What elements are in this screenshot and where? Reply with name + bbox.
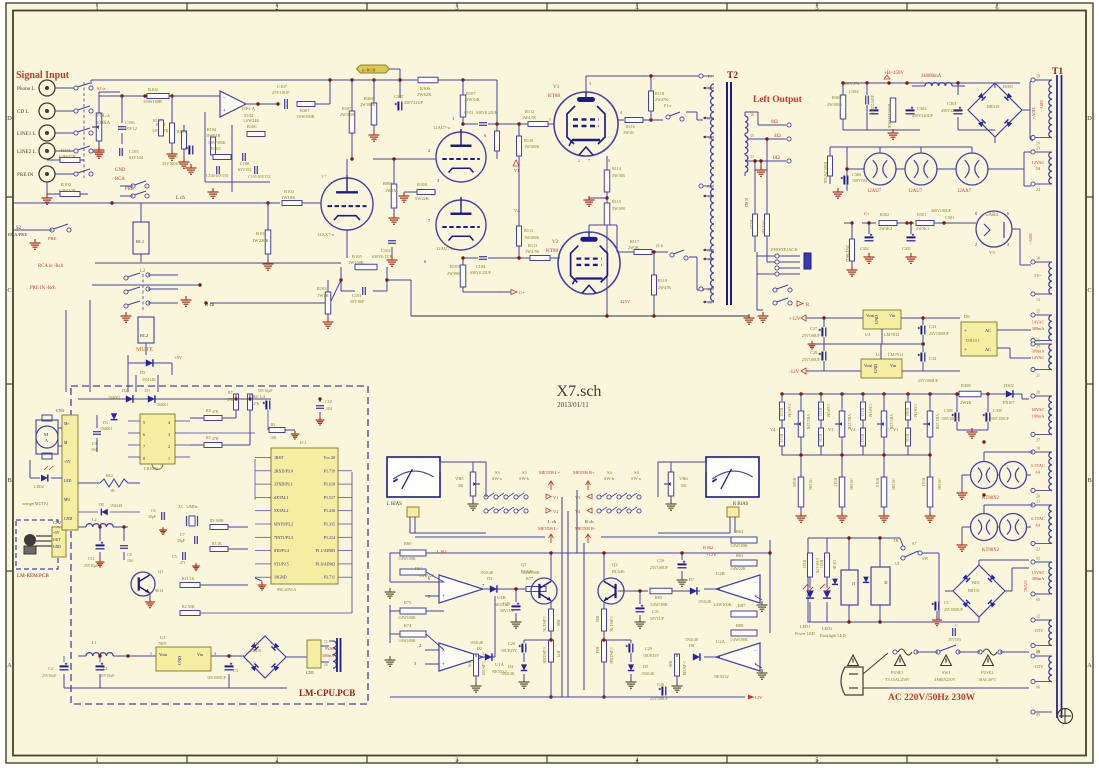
svg-text:Vin: Vin (197, 652, 204, 657)
svg-text:1N4001: 1N4001 (100, 427, 112, 431)
svg-text:9T1/P3.5: 9T1/P3.5 (274, 561, 289, 566)
svg-text:R308: R308 (961, 383, 971, 388)
svg-text:1/4W100K: 1/4W100K (398, 556, 416, 561)
svg-text:D7: D7 (689, 577, 694, 582)
svg-text:19: 19 (1036, 446, 1040, 451)
svg-text:AC: AC (985, 347, 991, 352)
svg-text:A: A (7, 662, 12, 669)
svg-text:1/4W10K: 1/4W10K (58, 188, 77, 193)
svg-text:C308: C308 (993, 408, 1002, 413)
svg-text:03: 03 (1036, 597, 1040, 602)
svg-text:1/4W100K: 1/4W100K (398, 615, 416, 620)
svg-text:630V0.1UF: 630V0.1UF (372, 254, 393, 259)
svg-text:1/6W100R: 1/6W100R (143, 99, 162, 104)
svg-text:C29: C29 (645, 646, 652, 651)
svg-text:25V10μF: 25V10μF (84, 564, 98, 568)
svg-text:100V100UF: 100V100UF (941, 417, 960, 421)
svg-text:1N4148: 1N4148 (685, 637, 698, 642)
svg-text:R101: R101 (256, 231, 267, 236)
svg-text:C+: C+ (864, 211, 870, 216)
svg-text:27: 27 (1036, 437, 1040, 442)
svg-text:C: C (7, 287, 11, 294)
svg-text:CN3: CN3 (56, 408, 64, 413)
svg-text:R112: R112 (525, 109, 534, 114)
svg-text:16: 16 (750, 112, 754, 117)
svg-text:R5: R5 (206, 435, 211, 440)
svg-text:1W10K: 1W10K (808, 478, 812, 490)
svg-text:V1: V1 (553, 495, 558, 500)
svg-text:orange(MUTE): orange(MUTE) (22, 501, 49, 506)
svg-text:18: 18 (1036, 74, 1040, 79)
svg-text:R80: R80 (556, 620, 560, 626)
svg-text:P1.214: P1.214 (324, 535, 335, 540)
svg-text:R86: R86 (668, 661, 672, 667)
svg-text:16V1000UF: 16V1000UF (207, 676, 226, 680)
svg-text:1/6W1M: 1/6W1M (913, 404, 917, 418)
svg-text:10UF25V: 10UF25V (501, 648, 517, 653)
svg-text:Vout: Vout (864, 363, 873, 368)
svg-text:4A: 4A (1035, 469, 1040, 474)
svg-text:12AU7: 12AU7 (867, 189, 882, 194)
svg-text:15: 15 (324, 640, 328, 644)
svg-text:1/4W1M: 1/4W1M (481, 661, 485, 675)
svg-text:3: 3 (214, 652, 216, 656)
svg-text:7: 7 (482, 583, 484, 588)
svg-text:1/6W1M: 1/6W1M (868, 404, 872, 418)
svg-text:U2A: U2A (716, 639, 726, 644)
svg-text:R320: R320 (792, 478, 797, 487)
svg-text:25V1000UF: 25V1000UF (918, 378, 939, 383)
svg-text:KT88: KT88 (546, 248, 559, 254)
svg-text:R116: R116 (626, 124, 635, 129)
svg-text:47K: 47K (227, 398, 234, 402)
svg-text:+: + (964, 348, 967, 353)
svg-text:89C2051A: 89C2051A (277, 587, 297, 592)
svg-text:25V103: 25V103 (948, 637, 961, 642)
svg-text:3TXD/P3.1: 3TXD/P3.1 (274, 482, 293, 487)
svg-text:R1: R1 (271, 422, 276, 427)
svg-text:2W47K: 2W47K (658, 285, 671, 290)
svg-text:B+: B+ (707, 184, 713, 189)
svg-text:R ch: R ch (585, 519, 594, 524)
svg-text:7805: 7805 (158, 641, 166, 646)
svg-text:25V100UF: 25V100UF (802, 333, 821, 338)
svg-text:25V10UF: 25V10UF (272, 90, 290, 95)
svg-text:P1.315: P1.315 (324, 522, 335, 527)
svg-text:R105: R105 (352, 254, 363, 259)
svg-text:340V~: 340V~ (1031, 107, 1036, 120)
svg-text:+12V: +12V (706, 552, 717, 557)
svg-text:V1: V1 (553, 84, 560, 90)
svg-text:S3: S3 (522, 470, 527, 475)
svg-text:LM-REM.PCB: LM-REM.PCB (17, 573, 49, 579)
svg-text:R312: R312 (860, 408, 864, 416)
svg-text:5XTAL2: 5XTAL2 (274, 508, 288, 513)
svg-text:GND: GND (873, 364, 878, 373)
svg-text:C104 63V105: C104 63V105 (206, 173, 229, 178)
svg-text:1/4W220R: 1/4W220R (609, 647, 613, 664)
svg-text:R 8Ω: R 8Ω (703, 545, 714, 550)
svg-text:LED: LED (64, 479, 72, 483)
svg-text:P1.0/AIN02: P1.0/AIN02 (316, 561, 335, 566)
svg-text:1/4W100R: 1/4W100R (650, 602, 668, 607)
svg-text:22: 22 (1036, 546, 1040, 551)
svg-text:2W1K: 2W1K (628, 245, 639, 250)
svg-text:1: 1 (452, 116, 454, 121)
svg-text:P1.416: P1.416 (324, 508, 335, 513)
svg-text:D6: D6 (964, 314, 970, 319)
svg-text:16: 16 (1036, 256, 1040, 261)
svg-text:50V1UF: 50V1UF (650, 616, 665, 621)
svg-text:3A: 3A (1035, 166, 1040, 171)
svg-text:1N4148: 1N4148 (142, 377, 156, 382)
svg-text:47K: 47K (212, 437, 219, 441)
svg-text:5W10R: 5W10R (612, 206, 625, 211)
svg-text:1/4W22K: 1/4W22K (730, 566, 746, 571)
svg-text:D: D (1087, 115, 1092, 122)
svg-text:SW: SW (922, 556, 928, 561)
svg-text:11: 11 (750, 154, 754, 159)
svg-text:R7: R7 (228, 390, 233, 395)
svg-text:R303: R303 (832, 95, 842, 100)
svg-text:VR4 22K: VR4 22K (806, 414, 811, 430)
svg-text:C+: C+ (519, 290, 525, 295)
svg-text:2W100K: 2W100K (360, 102, 375, 107)
svg-text:D5: D5 (643, 664, 648, 669)
svg-text:MU: MU (64, 498, 70, 502)
svg-text:B: B (1087, 477, 1092, 484)
svg-text:6: 6 (143, 432, 145, 437)
svg-text:1N4148: 1N4148 (698, 599, 711, 604)
svg-text:R77: R77 (526, 576, 533, 581)
svg-text:R322: R322 (802, 560, 806, 568)
svg-text:1-4W1M: 1-4W1M (682, 661, 686, 676)
svg-text:R110: R110 (524, 138, 534, 143)
svg-text:-115V: -115V (1033, 664, 1044, 669)
svg-text:D5: D5 (99, 502, 104, 507)
svg-text:D001: D001 (1003, 84, 1014, 89)
svg-text:CD L: CD L (17, 109, 29, 115)
svg-text:6: 6 (1007, 211, 1009, 216)
svg-text:07: 07 (708, 194, 712, 199)
svg-text:100mA: 100mA (1032, 413, 1045, 418)
svg-text:14VAC: 14VAC (1032, 355, 1045, 360)
svg-text:2W470KΩ: 2W470KΩ (845, 245, 849, 262)
svg-text:63V104: 63V104 (129, 155, 144, 160)
svg-text:C307: C307 (394, 94, 404, 99)
svg-text:R62: R62 (736, 529, 743, 534)
svg-text:1/6W4.7K: 1/6W4.7K (815, 558, 819, 573)
svg-text:C100: C100 (240, 161, 249, 166)
svg-text:R2 50K: R2 50K (182, 604, 195, 609)
svg-text:U2B: U2B (716, 571, 725, 576)
svg-text:1N4148: 1N4148 (501, 671, 514, 676)
svg-text:9014: 9014 (155, 588, 164, 593)
svg-text:R305 2W33K: R305 2W33K (823, 162, 827, 183)
svg-text:Vout: Vout (159, 652, 168, 657)
svg-text:R105: R105 (211, 146, 221, 151)
svg-text:15: 15 (750, 133, 754, 138)
svg-text:KT88X2: KT88X2 (982, 548, 1000, 553)
svg-text:+: + (964, 329, 967, 334)
svg-text:3: 3 (589, 81, 591, 86)
svg-text:T3.15AL250V: T3.15AL250V (885, 677, 910, 682)
svg-text:1/4W47K: 1/4W47K (58, 154, 77, 159)
svg-text:R118: R118 (655, 91, 664, 96)
svg-text:R313: R313 (860, 434, 864, 442)
svg-text:V2: V2 (850, 427, 855, 432)
svg-text:LM7812: LM7812 (884, 332, 899, 337)
svg-text:1W1K: 1W1K (832, 560, 836, 570)
svg-text:5: 5 (549, 117, 551, 122)
svg-text:+12V: +12V (789, 317, 801, 322)
svg-text:R10K: R10K (417, 182, 428, 187)
svg-text:2W3K1: 2W3K1 (916, 226, 929, 231)
svg-text:SW-a: SW-a (631, 476, 641, 481)
svg-text:R12: R12 (106, 473, 113, 478)
svg-text:104: 104 (91, 447, 97, 452)
svg-text:V4: V4 (575, 509, 581, 514)
svg-text:R106: R106 (247, 124, 257, 129)
svg-text:M-: M- (64, 441, 69, 445)
svg-text:C2: C2 (48, 666, 53, 671)
svg-text:Q1: Q1 (158, 569, 163, 574)
svg-text:8: 8 (608, 158, 610, 163)
svg-text:P1.1/AIN03: P1.1/AIN03 (316, 548, 335, 553)
svg-text:S4: S4 (634, 470, 639, 475)
svg-text:P1.618: P1.618 (324, 482, 335, 487)
svg-text:R306: R306 (420, 86, 431, 91)
svg-text:2W2K: 2W2K (960, 400, 973, 405)
svg-text:R102: R102 (148, 87, 159, 92)
svg-text:4: 4 (168, 420, 170, 425)
svg-text:PRE: PRE (48, 236, 57, 241)
svg-text:GND: GND (874, 315, 879, 324)
svg-text:5V~: 5V~ (1034, 273, 1042, 278)
svg-text:KT88X2: KT88X2 (982, 496, 1000, 501)
svg-text:15VAC: 15VAC (1023, 580, 1028, 592)
svg-text:1N4001: 1N4001 (156, 403, 168, 407)
svg-text:C8: C8 (127, 552, 132, 557)
svg-text:104: 104 (127, 559, 133, 563)
svg-text:C33: C33 (929, 324, 937, 329)
svg-text:V2: V2 (553, 509, 558, 514)
svg-text:47K: 47K (212, 410, 219, 414)
svg-text:8: 8 (143, 456, 145, 461)
svg-text:L2: L2 (92, 517, 97, 522)
svg-text:CN2: CN2 (53, 520, 61, 525)
svg-text:M+: M+ (64, 422, 70, 426)
svg-text:D: D (7, 115, 12, 122)
svg-text:R307: R307 (300, 108, 310, 113)
svg-text:C31: C31 (652, 609, 659, 614)
svg-text:1RST: 1RST (274, 455, 284, 460)
svg-text:C309: C309 (944, 408, 953, 413)
svg-text:R109: R109 (450, 264, 460, 269)
svg-text:1N4001: 1N4001 (108, 396, 120, 400)
svg-text:50V12: 50V12 (125, 126, 137, 131)
svg-text:50V18P: 50V18P (350, 299, 364, 304)
svg-text:VR5: VR5 (455, 476, 464, 481)
svg-text:Q1: Q1 (521, 562, 527, 567)
svg-text:1/4W4.7K: 1/4W4.7K (609, 616, 613, 632)
svg-text:GND: GND (64, 517, 72, 521)
svg-text:25V10uF: 25V10uF (42, 674, 56, 678)
svg-text:OP1-A: OP1-A (242, 106, 256, 111)
svg-text:R302: R302 (880, 212, 889, 217)
svg-text:09: 09 (708, 300, 712, 305)
svg-text:X7.sch: X7.sch (557, 383, 602, 400)
svg-text:C102: C102 (381, 248, 391, 253)
svg-text:25V10uF: 25V10uF (100, 674, 114, 678)
svg-text:S3: S3 (495, 470, 500, 475)
svg-text:4A: 4A (1035, 522, 1040, 527)
svg-text:R87: R87 (738, 603, 746, 608)
svg-text:2: 2 (419, 643, 421, 648)
svg-text:12AX7: 12AX7 (957, 189, 972, 194)
svg-text:24: 24 (1036, 187, 1040, 192)
svg-text:U1B: U1B (497, 595, 506, 600)
svg-text:60VAC: 60VAC (1032, 407, 1045, 412)
svg-text:1/4W100K: 1/4W100K (713, 602, 732, 607)
svg-text:C32: C32 (929, 356, 936, 361)
svg-text:C105 63V152: C105 63V152 (248, 174, 271, 179)
svg-text:R119: R119 (658, 278, 667, 283)
svg-text:450V220UF: 450V220UF (912, 113, 934, 118)
svg-text:R317: R317 (833, 478, 838, 487)
svg-text:LM-CPU.PCB: LM-CPU.PCB (299, 688, 355, 698)
svg-text:D1: D1 (254, 641, 259, 646)
svg-text:425V: 425V (620, 299, 631, 304)
svg-text:1/6W1M: 1/6W1M (787, 404, 791, 418)
svg-text:AC 220V/50Hz 230W: AC 220V/50Hz 230W (888, 693, 976, 703)
svg-text:R9 100R: R9 100R (210, 519, 224, 523)
svg-text:C11: C11 (88, 556, 95, 561)
svg-text:IC1: IC1 (300, 440, 307, 445)
svg-text:C306: C306 (852, 172, 861, 177)
svg-text:C26: C26 (508, 641, 515, 646)
svg-text:R 8Ω: R 8Ω (744, 198, 749, 207)
svg-text:C16: C16 (657, 558, 665, 563)
svg-text:100V100UF: 100V100UF (990, 417, 1009, 421)
svg-text:1/6W390R: 1/6W390R (296, 114, 315, 119)
svg-text:METER L-: METER L- (538, 526, 559, 531)
svg-text:28: 28 (1036, 390, 1040, 395)
svg-text:R BIAS: R BIAS (733, 502, 749, 507)
svg-text:FUSE2: FUSE2 (981, 670, 993, 675)
svg-text:GND: GND (53, 545, 61, 549)
svg-text:BR101: BR101 (250, 648, 262, 653)
svg-text:1: 1 (168, 456, 170, 461)
svg-text:C105: C105 (129, 149, 139, 154)
svg-text:R74: R74 (404, 623, 412, 628)
svg-text:4A80A250V: 4A80A250V (934, 677, 956, 682)
svg-text:16: 16 (324, 663, 328, 667)
svg-text:V3: V3 (575, 495, 581, 500)
svg-text:U1A: U1A (495, 662, 505, 667)
svg-text:63V152: 63V152 (238, 167, 252, 172)
svg-text:AC: AC (985, 328, 991, 333)
svg-text:R304: R304 (364, 96, 374, 101)
svg-text:VR6: VR6 (679, 476, 688, 481)
svg-text:R114: R114 (612, 166, 622, 171)
svg-text:R307: R307 (342, 106, 351, 111)
svg-text:25V1000UF: 25V1000UF (944, 608, 963, 612)
svg-text:P1.517: P1.517 (324, 495, 335, 500)
svg-text:C301: C301 (945, 215, 954, 220)
svg-text:R314: R314 (875, 478, 880, 487)
svg-text:R321: R321 (819, 560, 823, 568)
svg-text:23: 23 (1036, 146, 1040, 151)
svg-text:C301: C301 (947, 101, 957, 106)
svg-text:C104: C104 (476, 264, 486, 269)
svg-text:15VAC: 15VAC (1032, 570, 1045, 575)
svg-text:R61: R61 (415, 566, 422, 571)
svg-text:R318: R318 (779, 408, 783, 416)
svg-text:2RXD/P3.0: 2RXD/P3.0 (274, 468, 293, 473)
svg-text:1: 1 (482, 651, 484, 656)
svg-text:R63: R63 (736, 553, 744, 558)
svg-text:R301: R301 (917, 212, 926, 217)
svg-text:V1: V1 (893, 427, 898, 432)
svg-text:8: 8 (975, 211, 977, 216)
svg-text:1W10K: 1W10K (891, 478, 895, 490)
svg-text:1: 1 (150, 652, 152, 656)
svg-text:0Ω: 0Ω (773, 155, 780, 161)
svg-text:300mA: 300mA (1032, 326, 1045, 331)
svg-text:1W100K: 1W100K (524, 235, 539, 240)
svg-text:C302: C302 (860, 246, 869, 251)
svg-text:340V~: 340V~ (1039, 100, 1044, 112)
svg-text:R11 1K: R11 1K (182, 576, 195, 581)
svg-text:10UF25V: 10UF25V (643, 653, 659, 658)
svg-text:300mA: 300mA (1032, 576, 1045, 581)
svg-text:R107: R107 (153, 118, 162, 123)
svg-text:2W39K: 2W39K (447, 271, 460, 276)
svg-text:12AU7-a: 12AU7-a (433, 125, 450, 130)
svg-text:R76: R76 (467, 661, 471, 667)
svg-text:C27: C27 (810, 326, 818, 331)
svg-text:5W22K: 5W22K (415, 196, 430, 201)
svg-text:C106: C106 (125, 120, 135, 125)
svg-text:1N4148: 1N4148 (110, 504, 122, 508)
svg-text:G1: G1 (707, 116, 712, 121)
svg-text:C1: C1 (103, 666, 108, 671)
svg-text:400V100UF: 400V100UF (931, 208, 952, 213)
svg-text:D8: D8 (689, 643, 694, 648)
svg-text:471: 471 (180, 561, 186, 565)
svg-text:L2: L2 (140, 269, 146, 274)
svg-text:SW1: SW1 (942, 670, 950, 675)
svg-text:C302: C302 (917, 106, 927, 111)
svg-text:S4: S4 (607, 470, 612, 475)
svg-text:V5: V5 (989, 250, 995, 255)
svg-text:2W47K: 2W47K (655, 97, 668, 102)
svg-text:P3.711: P3.711 (324, 575, 335, 580)
svg-text:V4: V4 (770, 427, 776, 432)
svg-text:BC546: BC546 (612, 569, 625, 574)
svg-text:OUT: OUT (53, 538, 61, 542)
svg-text:R75: R75 (404, 600, 412, 605)
svg-text:+5V: +5V (53, 531, 60, 535)
svg-text:8Ω: 8Ω (771, 119, 778, 125)
svg-text:SW-b: SW-b (519, 476, 530, 481)
svg-text:P2: P2 (708, 287, 712, 292)
svg-text:3: 3 (414, 661, 416, 666)
svg-text:R103: R103 (317, 286, 327, 291)
svg-text:R8: R8 (206, 408, 211, 413)
svg-text:8T0/P3.4: 8T0/P3.4 (274, 548, 289, 553)
